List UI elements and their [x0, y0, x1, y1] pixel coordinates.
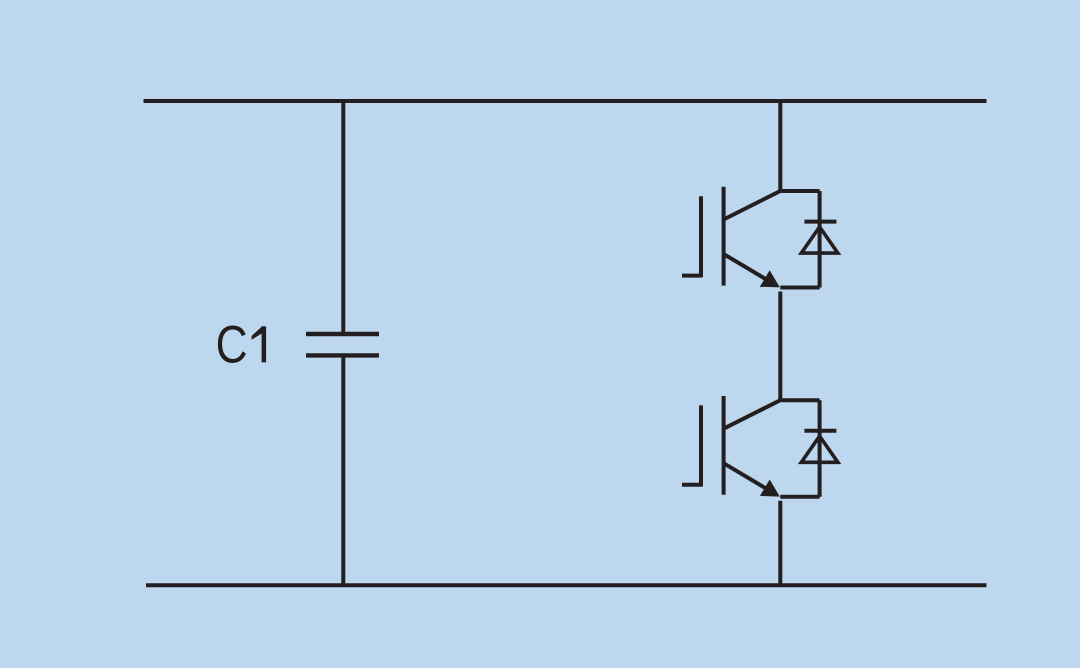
- collector line: [724, 191, 820, 220]
- emitter arrow: [760, 480, 780, 497]
- cathode bar: [804, 220, 836, 224]
- wire capacitor top lead: [341, 101, 345, 334]
- emitter arrow: [760, 270, 780, 287]
- gate bar: [699, 196, 703, 277]
- cathode bar: [804, 429, 836, 433]
- gate bar: [699, 405, 703, 486]
- wire top bus to Q1 collector: [778, 101, 782, 191]
- wire bottom bus (DC- rail): [146, 583, 987, 587]
- wire capacitor bottom lead: [341, 355, 345, 585]
- gate lead: [682, 274, 701, 278]
- transistor Q1 (upper IGBT): [682, 187, 820, 288]
- emitter node horizontal: [780, 286, 819, 290]
- emitter line: [724, 463, 775, 494]
- emitter node horizontal: [780, 495, 819, 499]
- capacitor C1: [306, 334, 379, 355]
- wire top bus (DC+ rail): [144, 99, 987, 103]
- anode triangle: [801, 436, 838, 462]
- svg-text:C: C: [216, 316, 248, 375]
- wire Q1 emitter to Q2 collector (midpoint node): [778, 292, 782, 401]
- body bar: [722, 187, 726, 286]
- wire Q2 emitter to bottom bus: [778, 501, 782, 586]
- diode D1 (antiparallel with Q1): [801, 191, 838, 288]
- diode D2 (antiparallel with Q2): [801, 400, 838, 497]
- label C1: [216, 316, 267, 375]
- transistor Q2 (lower IGBT): [682, 396, 820, 497]
- anode triangle: [801, 227, 838, 253]
- emitter line: [724, 254, 775, 285]
- collector line: [724, 400, 820, 429]
- body bar: [722, 396, 726, 495]
- gate lead: [682, 483, 701, 487]
